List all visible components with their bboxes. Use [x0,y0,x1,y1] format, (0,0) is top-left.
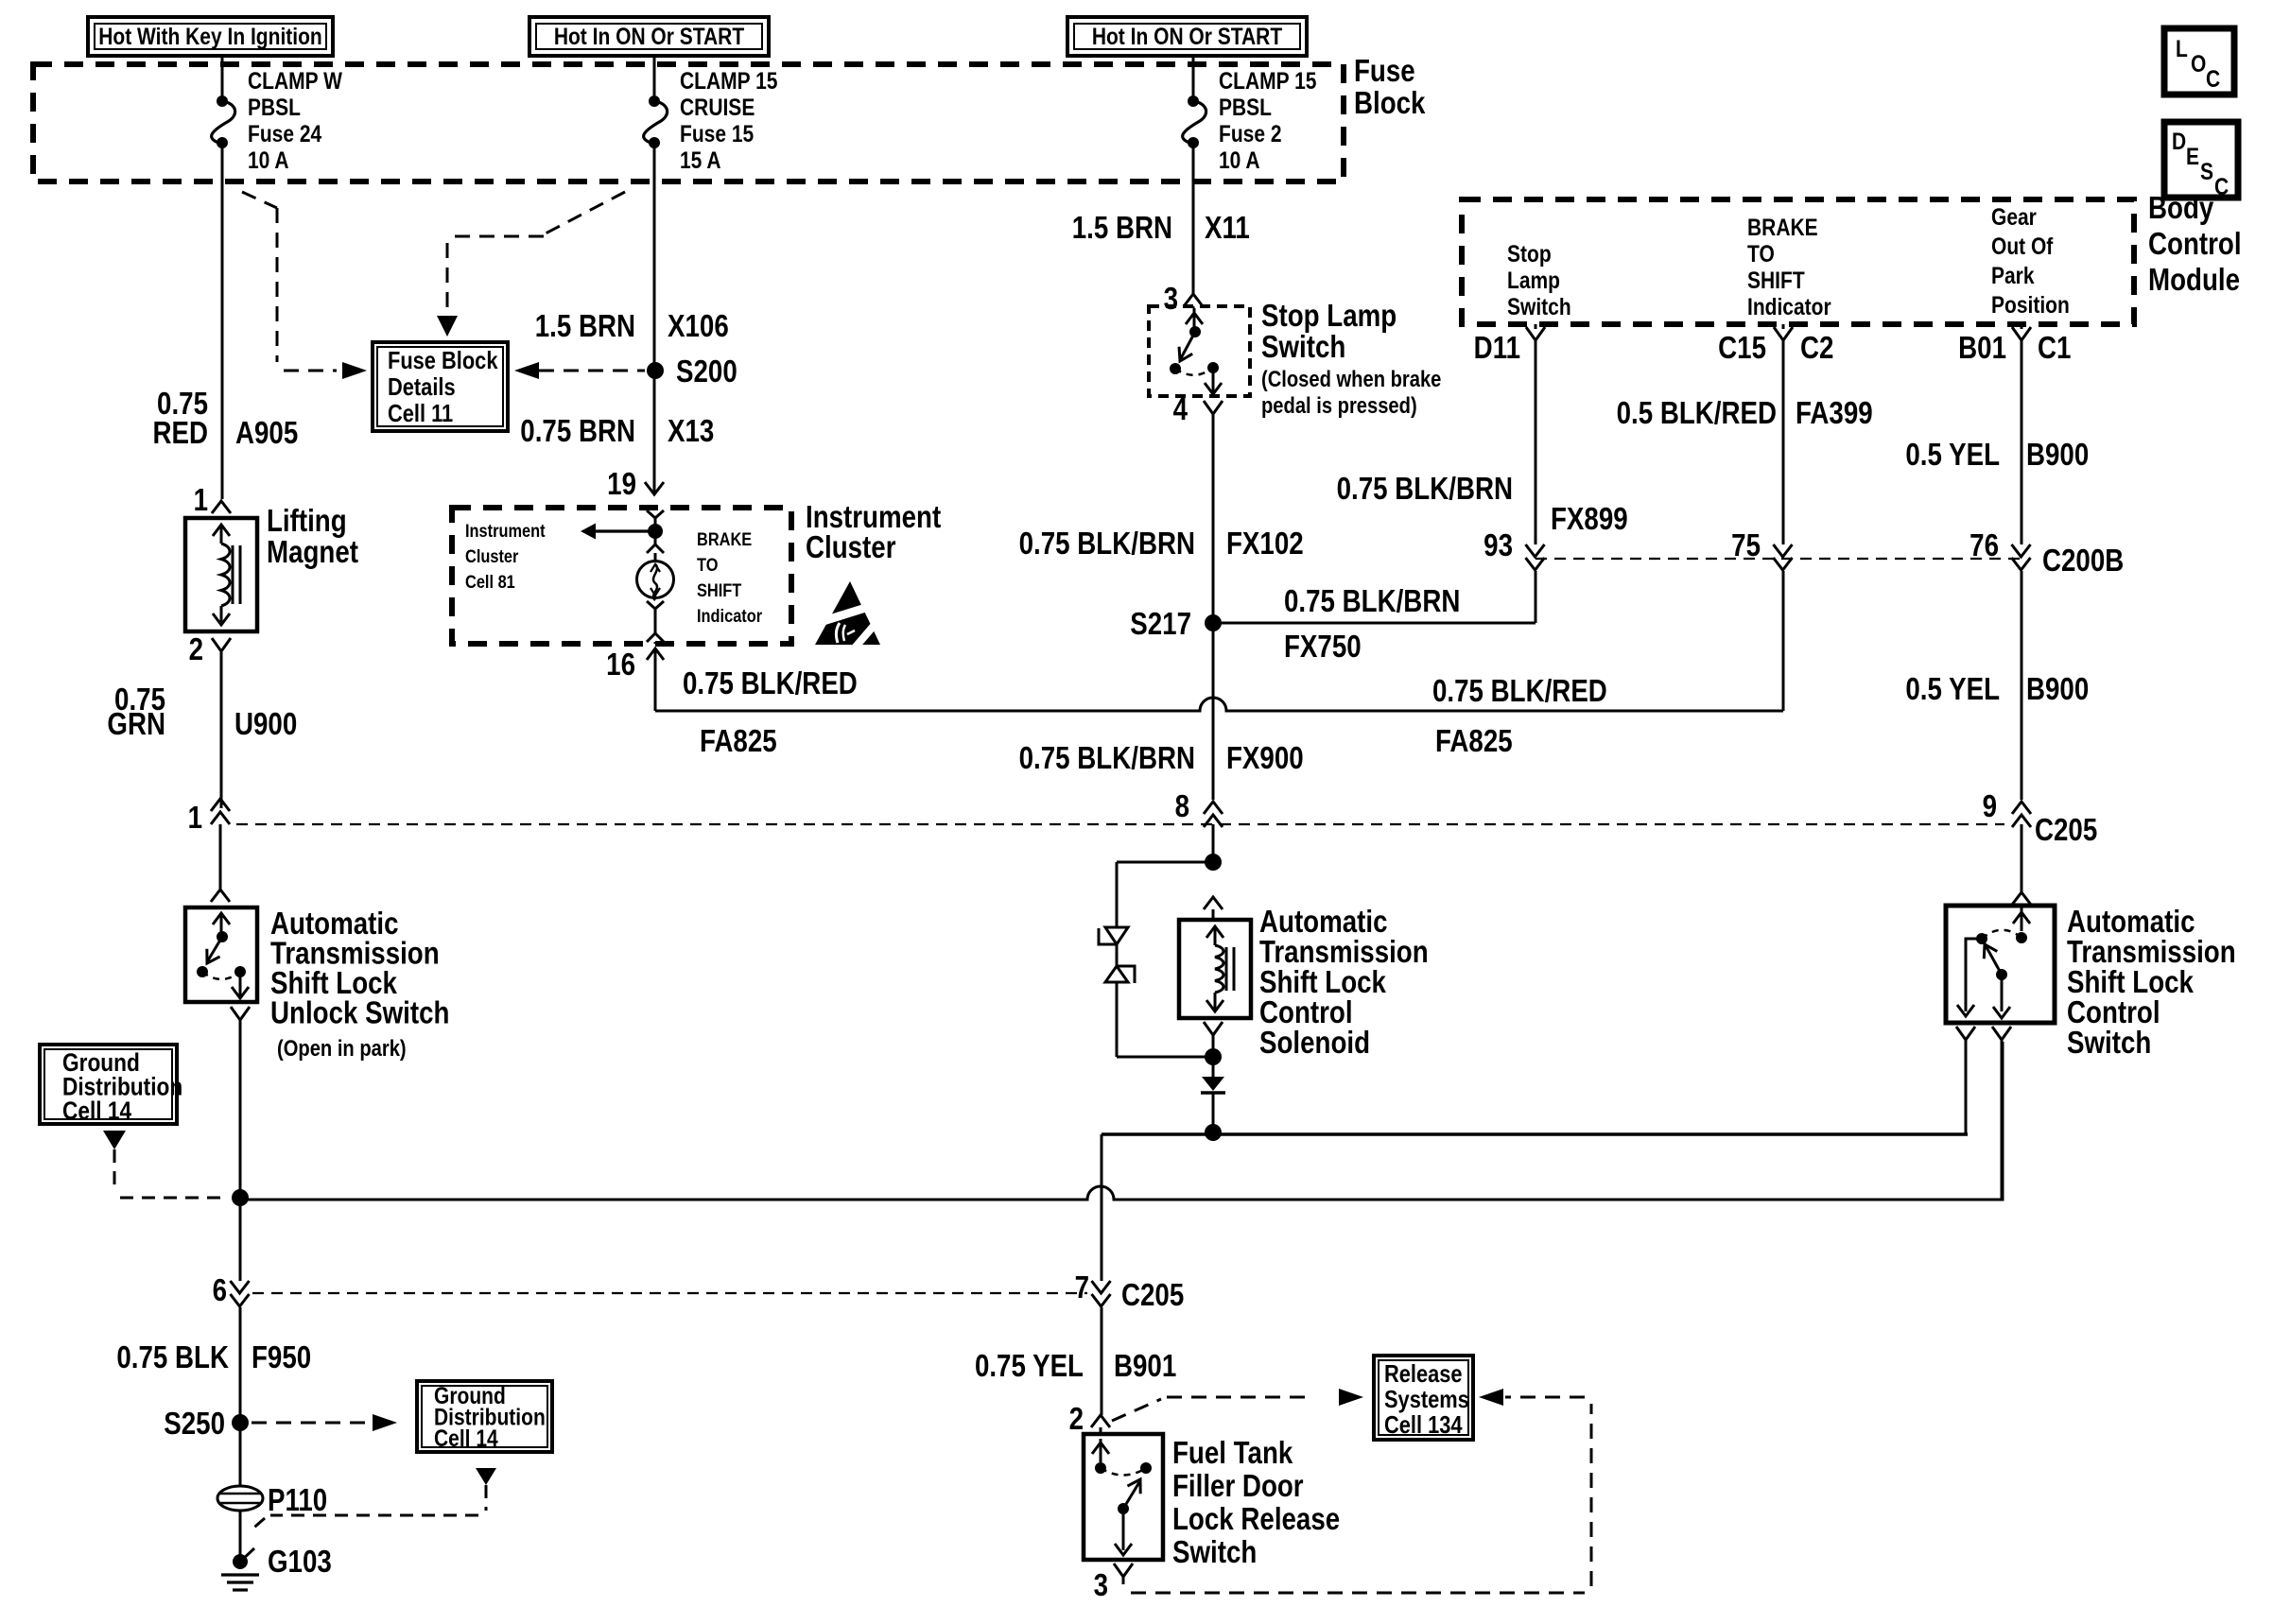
svg-text:TO: TO [1747,240,1775,267]
svg-text:Solenoid: Solenoid [1259,1026,1370,1061]
svg-text:8: 8 [1175,789,1189,824]
svg-text:X106: X106 [668,309,729,344]
svg-text:0.75 BLK/BRN: 0.75 BLK/BRN [1284,584,1460,619]
svg-text:Indicator: Indicator [1747,293,1831,320]
svg-text:1: 1 [188,801,202,836]
svg-text:TO: TO [697,555,718,576]
svg-text:Cluster: Cluster [465,546,518,567]
svg-text:S: S [2200,158,2213,184]
svg-text:0.5 YEL: 0.5 YEL [1905,672,2000,707]
svg-text:Lamp: Lamp [1507,267,1560,293]
svg-text:10 A: 10 A [248,147,289,173]
svg-text:Hot In ON Or START: Hot In ON Or START [1092,23,1282,49]
svg-text:F950: F950 [252,1340,311,1375]
svg-text:D11: D11 [1474,331,1520,366]
svg-text:Fuse 24: Fuse 24 [248,120,321,147]
svg-text:Fuse 15: Fuse 15 [680,120,754,147]
svg-text:76: 76 [1969,528,1999,563]
svg-text:Details: Details [388,373,456,401]
svg-text:(Closed when brake: (Closed when brake [1261,366,1441,391]
svg-text:4: 4 [1173,392,1188,427]
svg-text:1.5 BRN: 1.5 BRN [535,309,635,344]
svg-text:FX899: FX899 [1551,502,1628,537]
svg-text:Fuse 2: Fuse 2 [1219,120,1282,147]
svg-text:Systems: Systems [1384,1386,1469,1413]
svg-text:Cell 81: Cell 81 [465,572,515,593]
svg-text:S217: S217 [1130,607,1191,642]
svg-text:0.75 BLK: 0.75 BLK [116,1340,229,1375]
svg-text:Cluster: Cluster [806,530,896,565]
svg-text:CLAMP W: CLAMP W [248,67,342,94]
svg-text:FX900: FX900 [1226,741,1304,776]
svg-text:FA825: FA825 [700,724,777,759]
svg-text:CRUISE: CRUISE [680,94,755,120]
svg-text:X11: X11 [1205,211,1250,246]
svg-text:0.75 BLK/BRN: 0.75 BLK/BRN [1019,527,1195,561]
svg-text:FX102: FX102 [1226,527,1304,561]
svg-text:Block: Block [1354,86,1426,121]
svg-text:B901: B901 [1114,1349,1176,1384]
svg-text:A905: A905 [235,416,298,451]
svg-text:pedal is pressed): pedal is pressed) [1261,392,1417,418]
svg-text:0.75 BRN: 0.75 BRN [520,414,635,449]
svg-text:15 A: 15 A [680,147,721,173]
svg-text:Fuse Block: Fuse Block [388,347,498,374]
svg-text:2: 2 [1069,1402,1084,1437]
svg-text:FA399: FA399 [1796,396,1873,431]
svg-text:0.75 YEL: 0.75 YEL [975,1349,1084,1384]
svg-text:93: 93 [1484,528,1513,563]
svg-text:3: 3 [1164,282,1178,317]
svg-text:2: 2 [189,632,203,667]
svg-text:C200B: C200B [2042,544,2124,579]
svg-text:X13: X13 [668,414,714,449]
svg-text:Fuel Tank: Fuel Tank [1172,1436,1293,1471]
svg-text:Cell 11: Cell 11 [388,400,453,427]
svg-text:0.5 BLK/RED: 0.5 BLK/RED [1617,396,1777,431]
svg-text:Cell 134: Cell 134 [1384,1411,1463,1439]
svg-text:B900: B900 [2026,672,2089,707]
svg-text:Module: Module [2148,263,2240,298]
svg-text:0.75 BLK/BRN: 0.75 BLK/BRN [1019,741,1195,776]
svg-text:19: 19 [607,467,636,502]
svg-text:75: 75 [1731,528,1761,563]
svg-text:RED: RED [152,416,208,451]
svg-text:FA825: FA825 [1435,724,1513,759]
svg-text:Lifting: Lifting [267,504,347,539]
svg-text:L: L [2176,35,2188,61]
svg-text:PBSL: PBSL [1219,94,1272,120]
svg-text:Stop Lamp: Stop Lamp [1261,299,1397,334]
svg-text:S200: S200 [676,354,737,389]
svg-text:C15: C15 [1718,331,1766,366]
svg-text:Hot With Key In Ignition: Hot With Key In Ignition [98,23,322,49]
svg-text:GRN: GRN [107,707,165,742]
svg-text:C205: C205 [2035,813,2097,848]
svg-text:G103: G103 [268,1545,332,1580]
svg-text:16: 16 [606,648,635,682]
svg-text:Fuse: Fuse [1354,54,1415,89]
svg-text:SHIFT: SHIFT [697,580,741,601]
svg-text:Indicator: Indicator [697,606,762,627]
svg-text:Hot In ON Or START: Hot In ON Or START [554,23,744,49]
svg-text:Switch: Switch [2067,1026,2151,1061]
svg-text:Instrument: Instrument [465,521,546,542]
svg-text:FX750: FX750 [1284,630,1362,665]
svg-text:PBSL: PBSL [248,94,301,120]
svg-text:S250: S250 [164,1407,225,1442]
svg-text:BRAKE: BRAKE [1747,214,1818,240]
svg-text:9: 9 [1983,789,1997,824]
svg-text:Switch: Switch [1172,1535,1257,1570]
svg-text:P110: P110 [268,1483,327,1518]
svg-text:7: 7 [1075,1270,1089,1305]
svg-text:B01: B01 [1958,331,2006,366]
svg-text:0.5 YEL: 0.5 YEL [1905,438,2000,473]
svg-text:D: D [2172,128,2186,154]
svg-text:Park: Park [1991,262,2035,288]
svg-text:Filler Door: Filler Door [1172,1469,1304,1504]
svg-text:C: C [2206,65,2220,92]
svg-text:CLAMP 15: CLAMP 15 [1219,67,1317,94]
svg-text:1.5 BRN: 1.5 BRN [1072,211,1172,246]
svg-text:Position: Position [1991,291,2070,318]
svg-text:CLAMP 15: CLAMP 15 [680,67,778,94]
svg-text:C1: C1 [2038,331,2071,366]
svg-text:1: 1 [194,483,208,518]
svg-text:0.75 BLK/BRN: 0.75 BLK/BRN [1337,472,1513,507]
svg-text:Lock Release: Lock Release [1172,1502,1340,1537]
svg-text:B900: B900 [2026,438,2089,473]
svg-text:Gear: Gear [1991,203,2037,230]
svg-text:U900: U900 [234,707,297,742]
svg-text:Unlock Switch: Unlock Switch [270,995,449,1030]
svg-text:Stop: Stop [1507,240,1552,267]
svg-text:Release: Release [1384,1360,1463,1388]
svg-text:Control: Control [2148,227,2242,262]
svg-text:O: O [2191,50,2206,77]
svg-text:C: C [2214,173,2229,199]
svg-text:Out Of: Out Of [1991,233,2054,259]
svg-text:BRAKE: BRAKE [697,529,752,550]
svg-text:Cell 14: Cell 14 [62,1097,131,1125]
svg-text:Magnet: Magnet [267,535,358,570]
svg-text:C2: C2 [1800,331,1833,366]
svg-text:0.75 BLK/RED: 0.75 BLK/RED [683,666,858,701]
svg-text:6: 6 [213,1273,227,1308]
svg-text:Switch: Switch [1507,293,1571,320]
svg-text:Cell 14: Cell 14 [434,1425,498,1451]
svg-text:10 A: 10 A [1219,147,1260,173]
svg-text:C205: C205 [1121,1278,1184,1313]
svg-text:Switch: Switch [1261,330,1345,365]
svg-text:3: 3 [1094,1568,1108,1603]
svg-text:E: E [2186,143,2199,169]
svg-text:0.75 BLK/RED: 0.75 BLK/RED [1432,674,1607,709]
svg-text:(Open in park): (Open in park) [277,1035,407,1061]
svg-text:SHIFT: SHIFT [1747,267,1805,293]
svg-text:Body: Body [2148,191,2213,226]
